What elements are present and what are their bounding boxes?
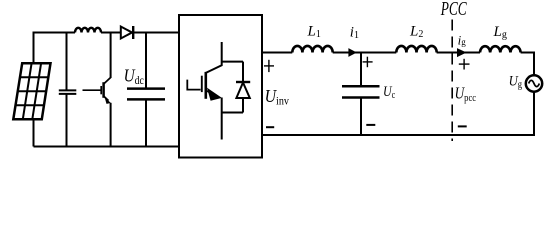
svg-text:i1: i1 bbox=[350, 25, 359, 41]
label - Uc bbox=[366, 124, 375, 126]
wire inverter bottom branch bbox=[222, 112, 243, 114]
capacitor Cdc lower lead bbox=[145, 99, 147, 146]
current arrow ig bbox=[457, 48, 467, 57]
svg-text:Lg: Lg bbox=[493, 24, 507, 41]
capacitor Uc lower lead bbox=[360, 98, 362, 136]
wire right bottom vertical bbox=[533, 92, 535, 136]
transistor Q2 emitter with arrow bbox=[206, 88, 222, 140]
wire right top vertical bbox=[533, 52, 535, 76]
node PCC dashed line bbox=[451, 20, 453, 142]
PV array panel bbox=[13, 63, 50, 119]
svg-text:Uinv: Uinv bbox=[265, 86, 290, 108]
svg-text:L1: L1 bbox=[307, 23, 321, 40]
wire top rail diode to inverter box bbox=[133, 32, 179, 34]
wire PV bottom lead bbox=[33, 119, 35, 146]
svg-text:ig: ig bbox=[458, 32, 467, 47]
capacitor Uc bbox=[342, 86, 380, 97]
svg-text:L2: L2 bbox=[409, 23, 423, 40]
transistor Q1 boost switch bbox=[83, 33, 111, 147]
wire top rail between boost L and diode bbox=[101, 32, 121, 34]
svg-text:PCC: PCC bbox=[440, 0, 467, 20]
wire top rail left bbox=[33, 32, 76, 34]
inverter block U1 bbox=[179, 15, 262, 158]
transistor Q2 body bar bbox=[205, 72, 208, 99]
label + Uc bbox=[363, 57, 373, 67]
wire L2 to Lg bbox=[437, 52, 480, 54]
capacitor C-in lower lead bbox=[66, 94, 68, 147]
wire node C to L2 bbox=[361, 52, 396, 54]
svg-text:Uc: Uc bbox=[383, 83, 395, 100]
label - inverter output bbox=[266, 126, 274, 128]
capacitor C-in upper lead bbox=[66, 33, 68, 91]
inductor L1 bbox=[292, 46, 332, 53]
capacitor Cdc upper lead bbox=[145, 33, 147, 89]
wire inverter bottom output rail bbox=[262, 134, 535, 136]
diode D1 boost bbox=[121, 26, 133, 39]
wire inverter top output bbox=[262, 52, 292, 54]
inductor boost L bbox=[75, 28, 101, 33]
current arrow i1 bbox=[348, 48, 356, 57]
wire L1 to node C bbox=[333, 52, 361, 54]
label + Upcc bbox=[459, 59, 470, 70]
svg-text:Udc: Udc bbox=[124, 65, 145, 87]
source Ug grid bbox=[526, 75, 542, 91]
wire PV top lead bbox=[33, 33, 35, 64]
wire bottom rail left bbox=[34, 146, 180, 148]
capacitor Cdc bbox=[127, 89, 165, 100]
label - Upcc bbox=[458, 125, 467, 127]
svg-text:Ug: Ug bbox=[509, 74, 523, 91]
transistor Q2 inverter IGBT gate lead bbox=[187, 80, 200, 90]
diode D2 freewheeling bbox=[236, 62, 250, 113]
transistor Q2 collector bbox=[206, 42, 222, 73]
inductor Lg bbox=[480, 46, 521, 52]
wire Lg to corner bbox=[521, 52, 534, 54]
label + inverter output bbox=[264, 60, 274, 72]
capacitor C-in bbox=[59, 90, 77, 94]
inductor L2 bbox=[396, 46, 436, 53]
transistor Q2 gate bar bbox=[201, 76, 203, 92]
capacitor Uc upper lead bbox=[360, 53, 362, 87]
svg-text:Upcc: Upcc bbox=[455, 84, 477, 104]
wire inverter top branch bbox=[222, 61, 243, 63]
